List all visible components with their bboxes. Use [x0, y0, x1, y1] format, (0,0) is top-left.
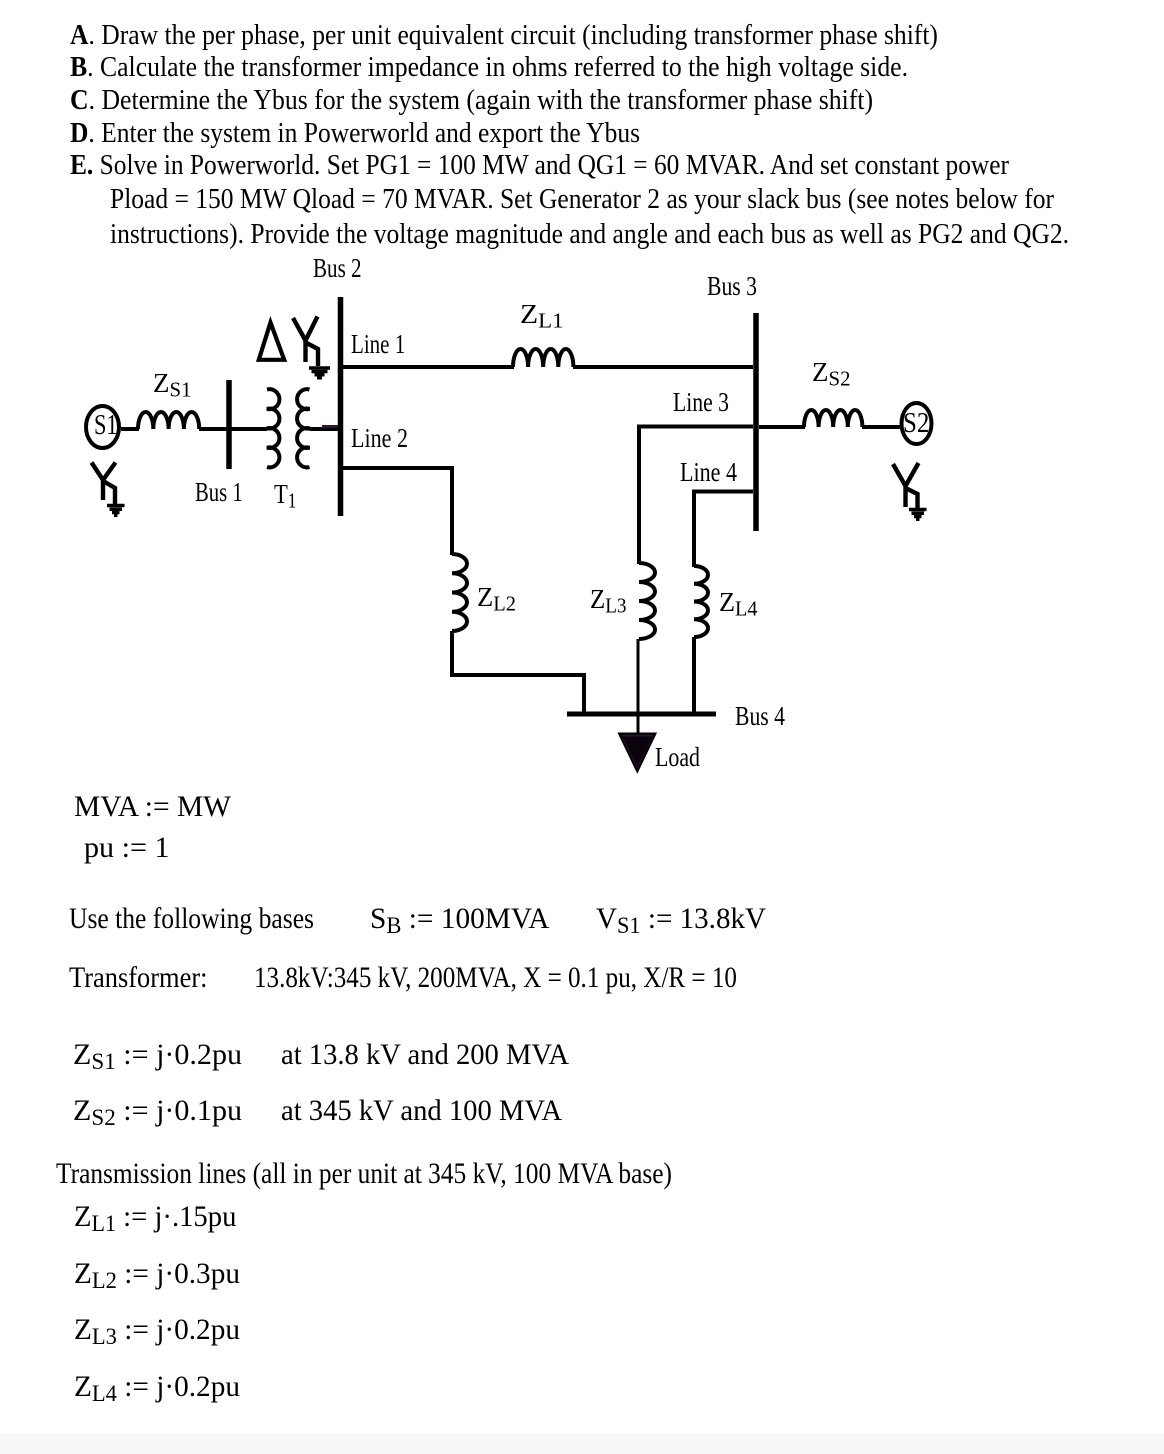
wire ZL2 to bus 4	[452, 631, 584, 712]
label Bus 4	[735, 702, 785, 730]
wire ZS2 to S2	[862, 425, 900, 429]
label T1	[274, 480, 296, 508]
problem statement text	[70, 21, 938, 50]
inductor ZL2	[452, 554, 467, 631]
label Bus 3	[707, 272, 757, 300]
wire bus 3 to ZS2	[759, 425, 805, 429]
label S2 (inside source S2)	[903, 409, 929, 438]
inductor ZL1	[513, 349, 573, 367]
wire Line 2 from bus 2 to ZL2	[343, 468, 452, 555]
wire Line 3 from bus 3 to ZL3	[639, 427, 753, 565]
bus 3	[753, 313, 759, 531]
bus 1	[226, 380, 232, 469]
circuit schematic	[0, 0, 1164, 800]
label Bus 2	[313, 254, 362, 282]
label Bus 1	[195, 478, 243, 506]
inductor ZL3	[639, 563, 655, 639]
label Line 4	[680, 458, 737, 486]
delta symbol (primary winding connection)	[259, 323, 284, 360]
wire Line 4 from bus 3 to ZL4	[694, 492, 753, 568]
label ZS1	[153, 369, 191, 397]
label Load	[655, 743, 700, 771]
wire ZS1 to transformer primary	[199, 427, 267, 431]
label ZL1	[520, 300, 564, 328]
label ZL2	[477, 583, 516, 611]
wire ZL3 to load through bus 4	[637, 639, 640, 733]
label Line 2	[351, 424, 408, 452]
wire transformer secondary to bus 2	[310, 427, 340, 431]
wire Line 1 left segment	[343, 365, 514, 369]
label Line 3	[673, 388, 729, 416]
bus 4	[567, 712, 716, 717]
load arrow	[619, 734, 656, 772]
wye-ground symbol (secondary winding connection)	[293, 317, 330, 378]
purple wire stub at bus 2	[322, 425, 340, 428]
wye-ground symbol below S2	[893, 463, 927, 519]
wye-ground symbol below S1	[92, 463, 125, 516]
label Line 1	[351, 330, 405, 358]
transformer T1 primary winding	[267, 389, 279, 467]
inductor ZL4	[694, 566, 708, 637]
label ZS2	[812, 358, 850, 386]
wire ZL4 to bus 4	[692, 637, 696, 712]
inductor ZS1	[138, 412, 199, 429]
inductor ZS2	[804, 410, 862, 427]
source S2	[902, 403, 932, 444]
mathcad definitions text	[74, 792, 231, 822]
bus 2	[338, 297, 344, 516]
transformer T1 secondary winding	[297, 389, 309, 467]
label S1 (inside source S1)	[94, 411, 118, 440]
source S1	[86, 406, 119, 448]
label ZL3	[590, 585, 627, 613]
faint bottom strip	[0, 1433, 1164, 1454]
wire S1 to ZS1	[121, 427, 139, 431]
wire Line 1 right segment	[573, 365, 753, 369]
label ZL4	[719, 588, 758, 616]
